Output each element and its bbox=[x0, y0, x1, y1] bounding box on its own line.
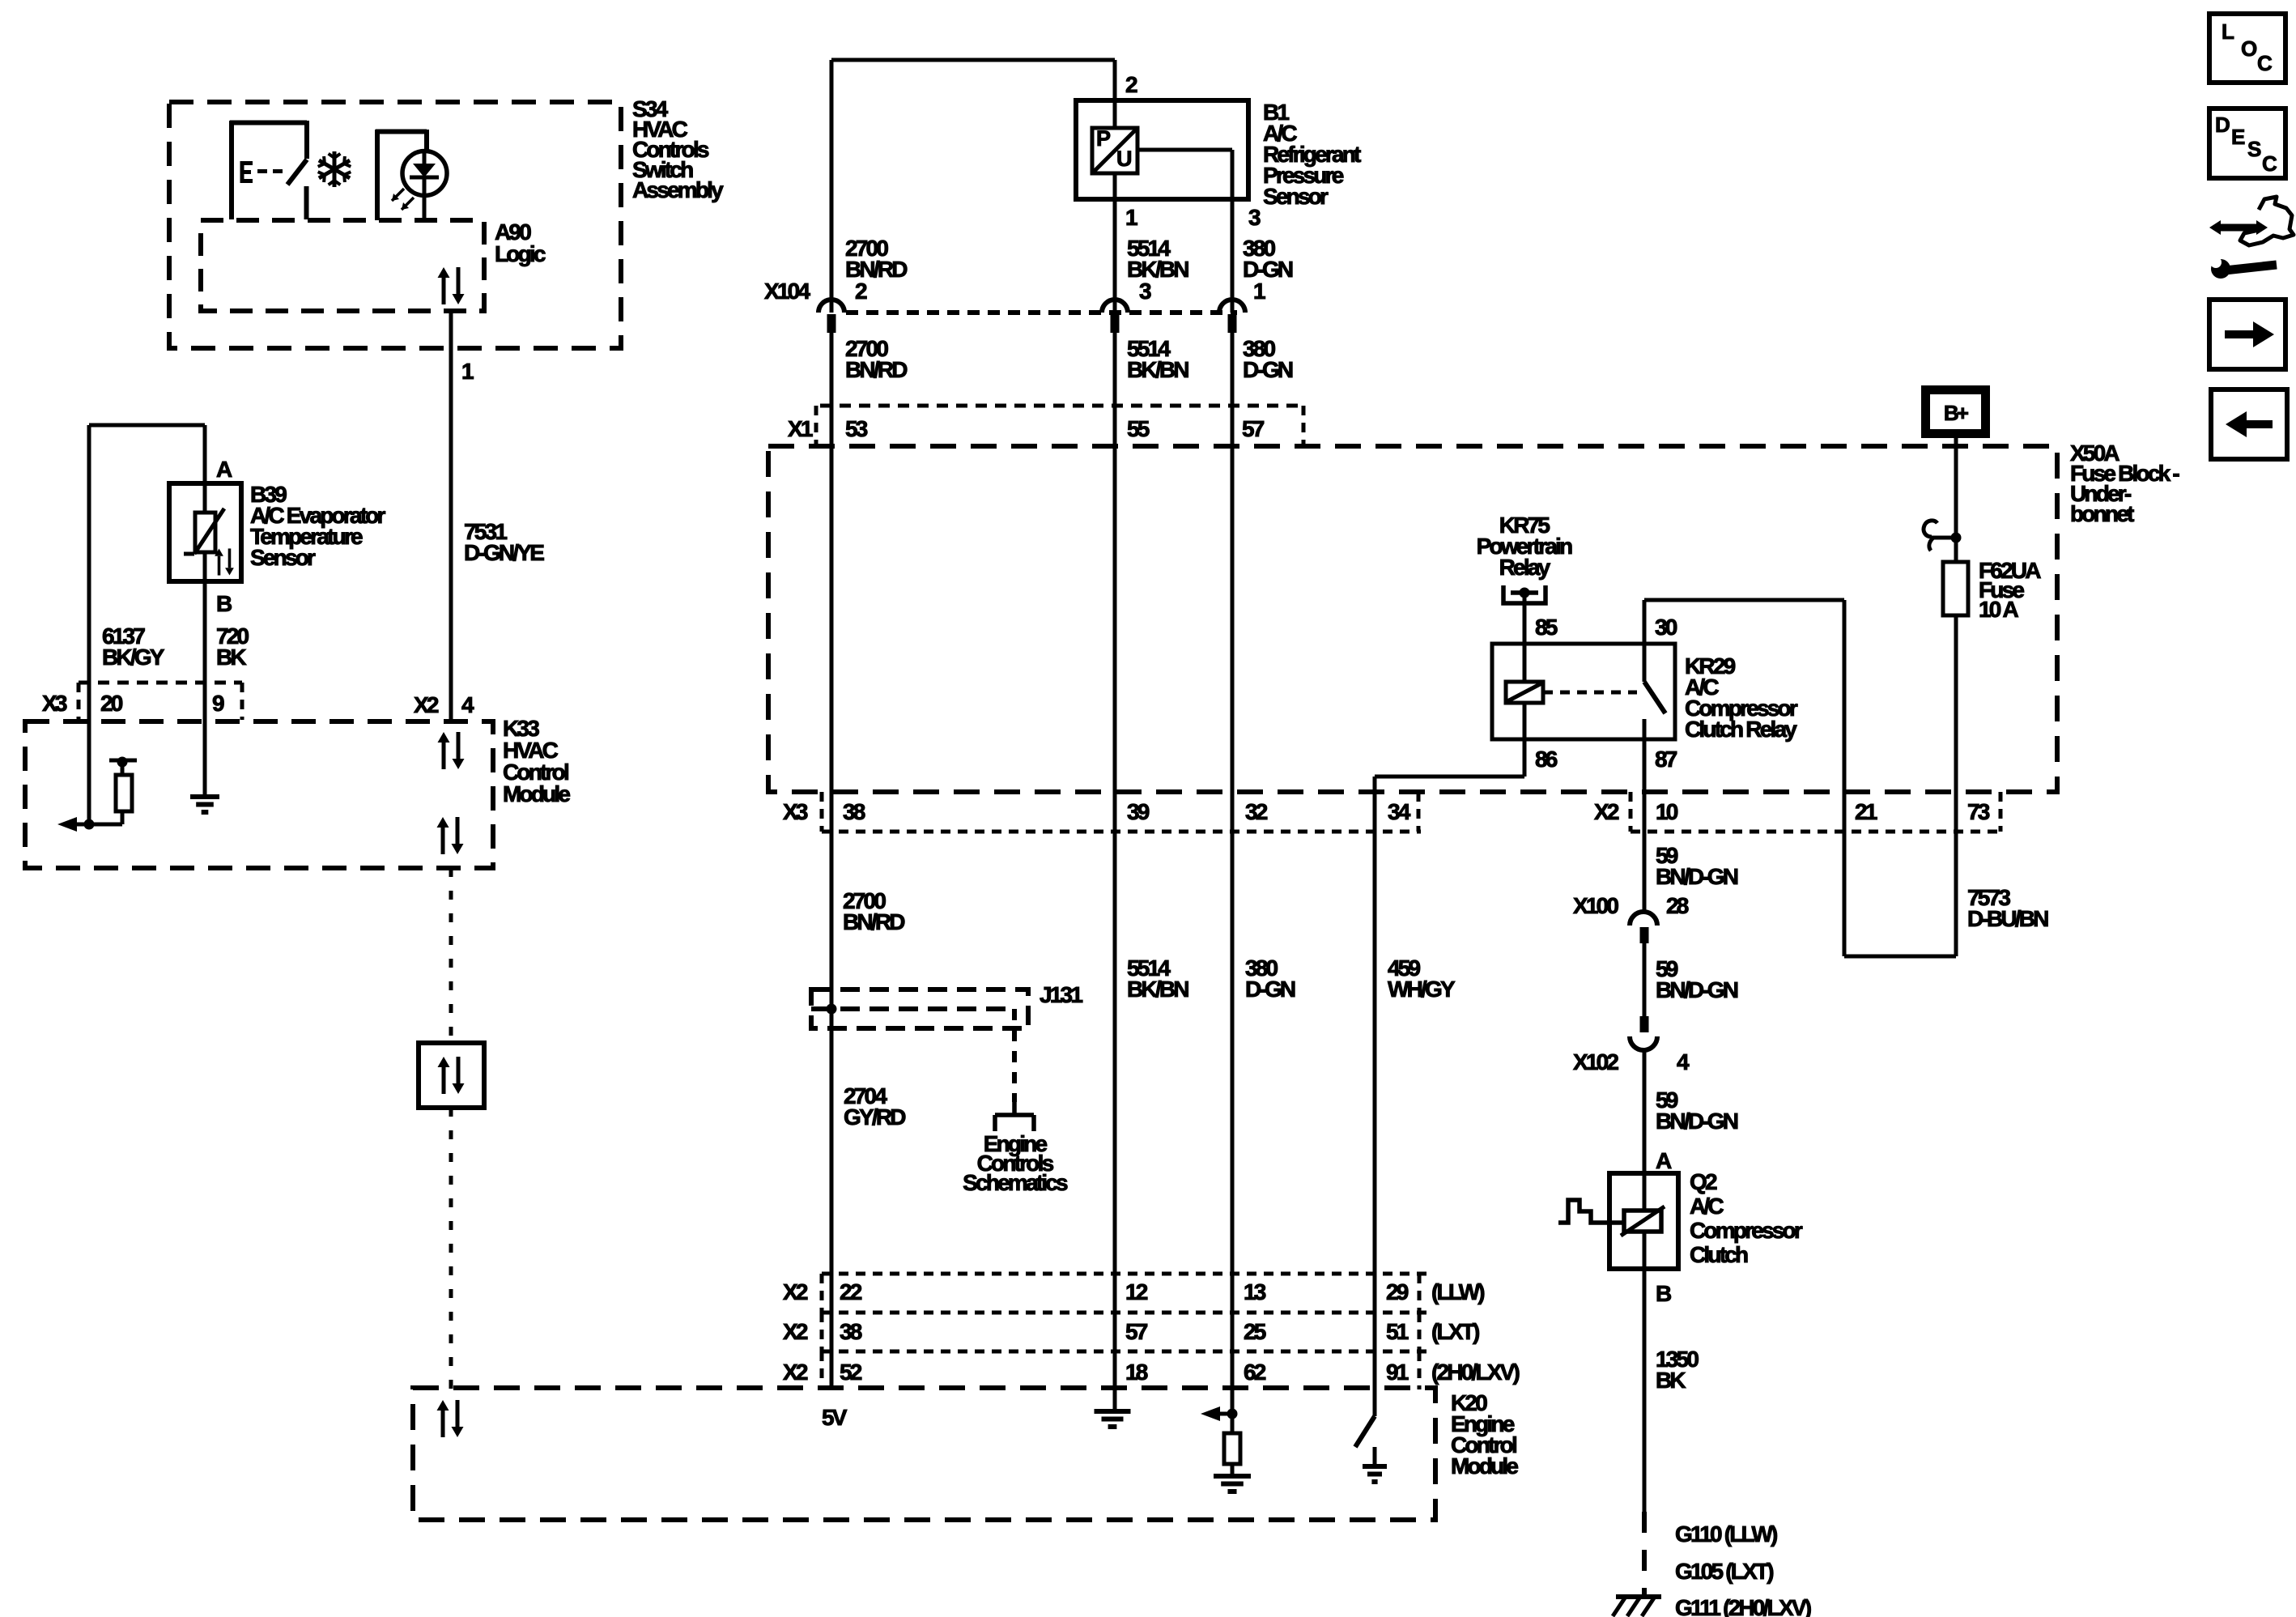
svg-text:B+: B+ bbox=[1944, 401, 1969, 425]
svg-text:G105 (LXT): G105 (LXT) bbox=[1675, 1559, 1773, 1584]
svg-text:Assembly: Assembly bbox=[632, 177, 724, 202]
svg-text:28: 28 bbox=[1666, 893, 1689, 918]
svg-text:2: 2 bbox=[855, 279, 867, 304]
svg-text:D-GN: D-GN bbox=[1243, 257, 1293, 282]
svg-text:Sensor: Sensor bbox=[250, 545, 316, 570]
svg-text:1: 1 bbox=[1125, 205, 1137, 230]
svg-text:85: 85 bbox=[1535, 615, 1558, 640]
svg-text:E: E bbox=[2231, 125, 2245, 149]
svg-text:O: O bbox=[2241, 36, 2257, 61]
svg-text:Clutch: Clutch bbox=[1690, 1242, 1748, 1267]
svg-text:BN/RD: BN/RD bbox=[845, 357, 908, 382]
svg-text:51: 51 bbox=[1386, 1319, 1409, 1344]
svg-text:bonnet: bonnet bbox=[2070, 501, 2134, 526]
svg-text:20: 20 bbox=[100, 691, 123, 716]
svg-text:38: 38 bbox=[840, 1319, 862, 1344]
svg-text:9: 9 bbox=[212, 691, 224, 716]
svg-text:G111 (2H0/LXV): G111 (2H0/LXV) bbox=[1675, 1595, 1811, 1617]
svg-text:BN/D-GN: BN/D-GN bbox=[1656, 864, 1738, 889]
svg-text:BK/BN: BK/BN bbox=[1127, 257, 1188, 282]
svg-text:91: 91 bbox=[1386, 1360, 1409, 1385]
svg-text:X104: X104 bbox=[764, 279, 810, 304]
svg-text:55: 55 bbox=[1127, 416, 1150, 441]
svg-text:Sensor: Sensor bbox=[1263, 184, 1329, 209]
svg-text:22: 22 bbox=[840, 1279, 862, 1304]
svg-text:BK/BN: BK/BN bbox=[1127, 357, 1188, 382]
svg-text:Relay: Relay bbox=[1499, 555, 1551, 580]
svg-text:34: 34 bbox=[1388, 799, 1411, 824]
svg-text:BK/GY: BK/GY bbox=[102, 645, 165, 670]
svg-text:10 A: 10 A bbox=[1979, 597, 2018, 622]
svg-text:A: A bbox=[216, 457, 232, 482]
svg-text:B: B bbox=[216, 591, 232, 616]
svg-text:D: D bbox=[2215, 113, 2230, 137]
svg-text:12: 12 bbox=[1125, 1279, 1148, 1304]
svg-text:2: 2 bbox=[1125, 72, 1137, 97]
svg-text:5V: 5V bbox=[822, 1405, 848, 1430]
svg-text:X2: X2 bbox=[1594, 799, 1619, 824]
svg-text:Logic: Logic bbox=[495, 241, 546, 266]
svg-text:D-GN/YE: D-GN/YE bbox=[464, 540, 544, 565]
svg-text:D-BU/BN: D-BU/BN bbox=[1967, 906, 2048, 931]
svg-text:1: 1 bbox=[1253, 279, 1265, 304]
svg-text:3: 3 bbox=[1248, 205, 1261, 230]
svg-text:39: 39 bbox=[1127, 799, 1150, 824]
svg-text:73: 73 bbox=[1967, 799, 1990, 824]
svg-text:D-GN: D-GN bbox=[1245, 977, 1295, 1002]
svg-text:A/C: A/C bbox=[1690, 1194, 1724, 1219]
svg-text:Clutch Relay: Clutch Relay bbox=[1685, 717, 1797, 742]
svg-text:21: 21 bbox=[1855, 799, 1877, 824]
svg-text:S: S bbox=[2247, 137, 2261, 161]
svg-text:BN/D-GN: BN/D-GN bbox=[1656, 1108, 1738, 1134]
svg-text:Module: Module bbox=[503, 781, 570, 806]
svg-text:U: U bbox=[1116, 147, 1131, 171]
svg-text:57: 57 bbox=[1125, 1319, 1148, 1344]
svg-text:10: 10 bbox=[1656, 799, 1678, 824]
svg-text:X2: X2 bbox=[783, 1319, 808, 1344]
svg-text:WH/GY: WH/GY bbox=[1388, 977, 1456, 1002]
svg-text:53: 53 bbox=[845, 416, 868, 441]
svg-text:25: 25 bbox=[1244, 1319, 1266, 1344]
svg-text:BK: BK bbox=[216, 645, 246, 670]
svg-text:18: 18 bbox=[1125, 1360, 1148, 1385]
svg-text:X1: X1 bbox=[788, 416, 813, 441]
svg-text:X100: X100 bbox=[1573, 893, 1618, 918]
svg-text:57: 57 bbox=[1242, 416, 1265, 441]
svg-text:B: B bbox=[1656, 1281, 1671, 1306]
svg-text:J131: J131 bbox=[1040, 982, 1082, 1007]
svg-text:X2: X2 bbox=[783, 1360, 808, 1385]
svg-text:29: 29 bbox=[1386, 1279, 1409, 1304]
svg-text:13: 13 bbox=[1244, 1279, 1266, 1304]
svg-text:(LXT): (LXT) bbox=[1431, 1319, 1479, 1344]
svg-text:87: 87 bbox=[1655, 747, 1677, 772]
svg-text:GY/RD: GY/RD bbox=[844, 1104, 906, 1130]
svg-text:D-GN: D-GN bbox=[1243, 357, 1293, 382]
svg-text:Module: Module bbox=[1451, 1453, 1518, 1479]
svg-text:38: 38 bbox=[843, 799, 865, 824]
svg-text:(2H0/LXV): (2H0/LXV) bbox=[1431, 1360, 1520, 1385]
svg-text:BK/BN: BK/BN bbox=[1127, 977, 1188, 1002]
svg-text:Q2: Q2 bbox=[1690, 1169, 1717, 1194]
svg-text:32: 32 bbox=[1245, 799, 1268, 824]
svg-text:X3: X3 bbox=[783, 799, 808, 824]
svg-text:52: 52 bbox=[840, 1360, 862, 1385]
svg-text:BN/RD: BN/RD bbox=[843, 909, 905, 934]
svg-text:1: 1 bbox=[461, 359, 474, 384]
svg-text:G110 (LLW): G110 (LLW) bbox=[1675, 1521, 1777, 1547]
svg-text:A: A bbox=[1656, 1148, 1672, 1173]
svg-text:Schematics: Schematics bbox=[963, 1170, 1068, 1195]
svg-text:X2: X2 bbox=[783, 1279, 808, 1304]
svg-text:Compressor: Compressor bbox=[1690, 1218, 1803, 1243]
svg-text:X2: X2 bbox=[414, 692, 439, 717]
svg-text:86: 86 bbox=[1535, 747, 1558, 772]
svg-text:30: 30 bbox=[1655, 615, 1677, 640]
svg-text:3: 3 bbox=[1139, 279, 1151, 304]
svg-text:X3: X3 bbox=[42, 691, 67, 716]
svg-text:BK: BK bbox=[1656, 1368, 1686, 1393]
svg-text:BN/D-GN: BN/D-GN bbox=[1656, 977, 1738, 1002]
svg-text:62: 62 bbox=[1244, 1360, 1266, 1385]
svg-text:X102: X102 bbox=[1573, 1049, 1618, 1074]
svg-text:(LLW): (LLW) bbox=[1431, 1279, 1484, 1304]
